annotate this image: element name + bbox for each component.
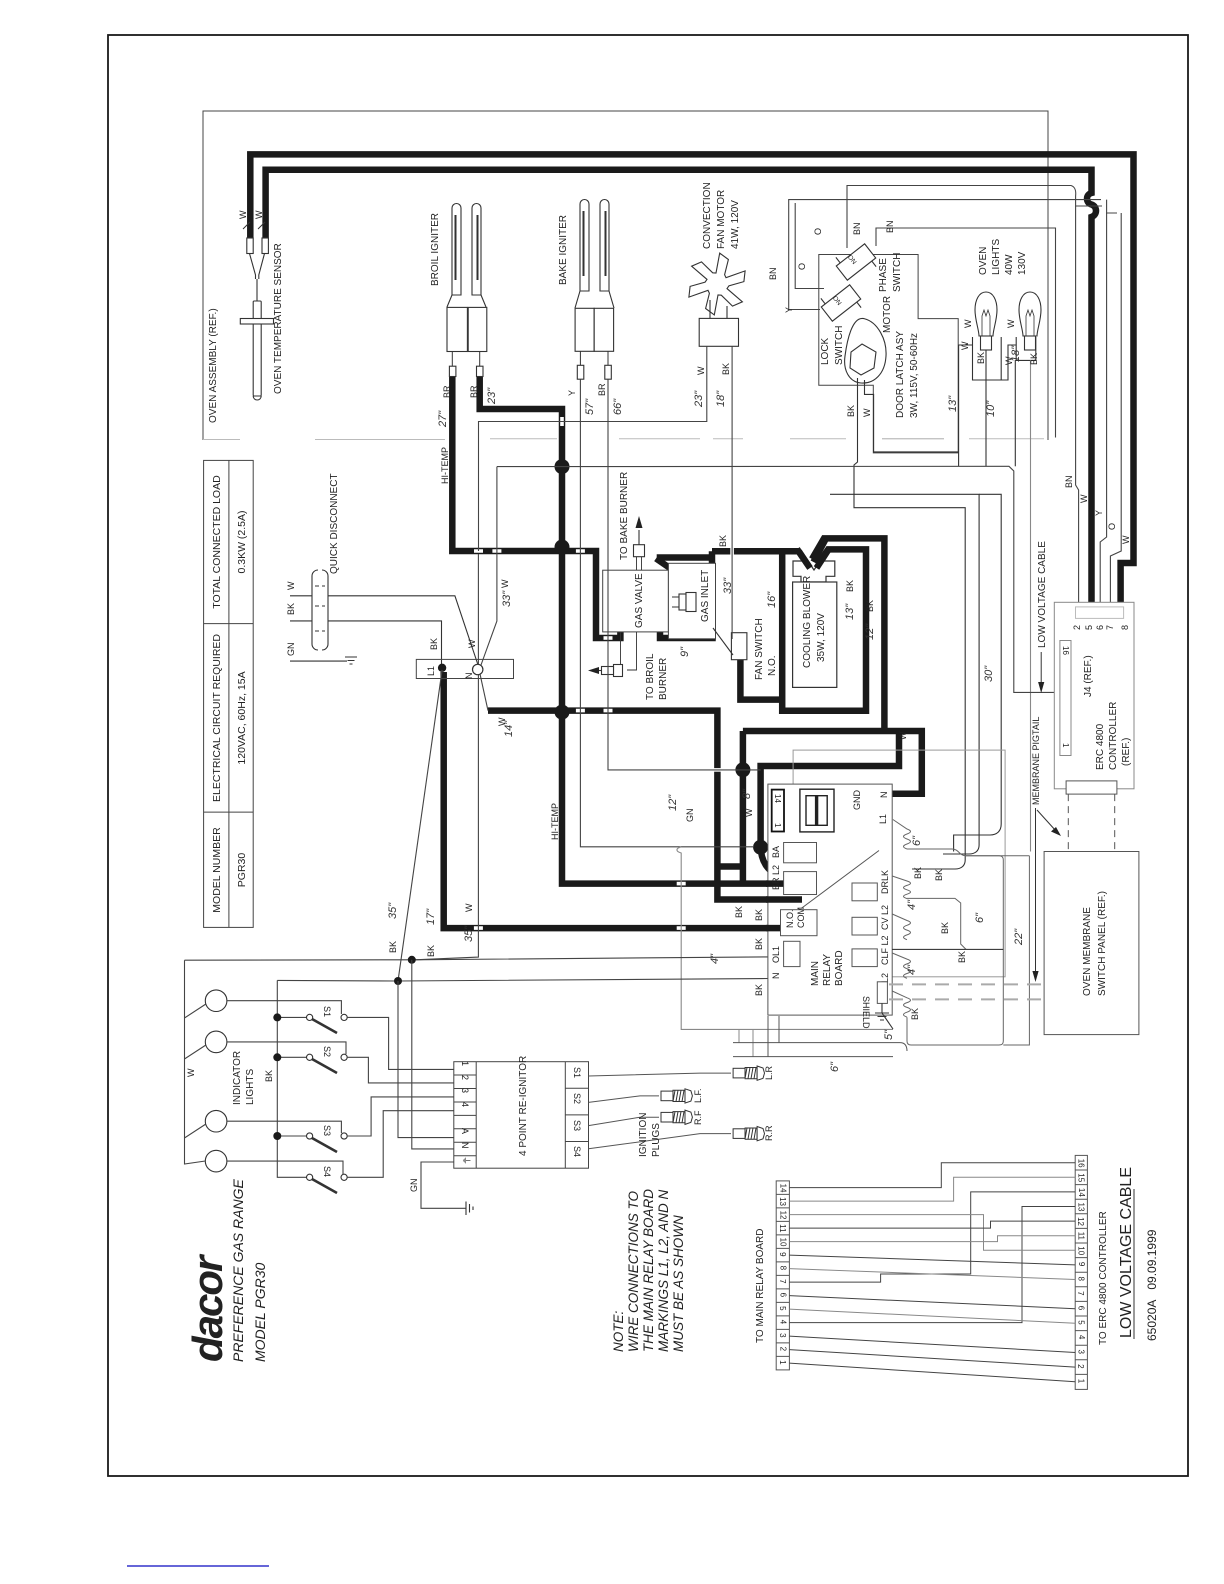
svg-text:130V: 130V <box>1017 251 1028 275</box>
door latch assembly box <box>819 255 958 453</box>
svg-text:BK: BK <box>286 603 296 615</box>
svg-text:4": 4" <box>906 899 918 910</box>
svg-text:MODEL NUMBER: MODEL NUMBER <box>211 827 223 913</box>
svg-text:FAN MOTOR: FAN MOTOR <box>716 190 727 249</box>
svg-text:Y: Y <box>784 307 794 313</box>
svg-text:BK: BK <box>1029 353 1039 365</box>
svg-text:W: W <box>898 731 908 740</box>
wire BR broil igniter right 23in down to BR L2 bus <box>480 374 772 884</box>
svg-text:W: W <box>862 408 872 417</box>
svg-text:GN: GN <box>685 809 695 823</box>
wire W sensor inner to ERC pin5 <box>266 170 1096 611</box>
wire W 14in from N to relay N.O. <box>488 711 786 900</box>
svg-text:DOOR LATCH ASY: DOOR LATCH ASY <box>895 331 906 418</box>
wire BK CLF black <box>892 948 1003 950</box>
switch S4 <box>307 1174 348 1193</box>
svg-text:5: 5 <box>778 1306 787 1311</box>
svg-text:12: 12 <box>779 1211 788 1220</box>
svg-text:COOLING BLOWER: COOLING BLOWER <box>802 576 813 668</box>
coil CLF L2 <box>892 953 910 978</box>
svg-text:3W, 115V, 50-60Hz: 3W, 115V, 50-60Hz <box>909 333 920 418</box>
svg-text:THE MAIN RELAY BOARD: THE MAIN RELAY BOARD <box>641 1189 656 1352</box>
switch output wires <box>347 960 454 1178</box>
wire lamp2 right <box>227 1042 346 1054</box>
svg-text:OVEN TEMPERATURE SENSOR: OVEN TEMPERATURE SENSOR <box>273 243 284 394</box>
svg-text:1: 1 <box>778 1360 787 1365</box>
relay connector strip 1-14 <box>772 790 784 832</box>
gas valve box <box>603 563 716 639</box>
relay board right coils and wires <box>892 820 1029 1046</box>
svg-text:N.O.: N.O. <box>767 655 778 676</box>
svg-text:10: 10 <box>1076 1246 1085 1255</box>
svg-text:W: W <box>286 581 296 590</box>
svg-text:BK: BK <box>910 1008 920 1020</box>
svg-text:CLF L2: CLF L2 <box>880 935 890 965</box>
oven assembly box bottom edge over latch box <box>882 438 944 440</box>
svg-text:BN: BN <box>1064 475 1074 488</box>
svg-text:BK: BK <box>934 869 944 881</box>
svg-text:15: 15 <box>1076 1173 1085 1182</box>
svg-text:BK: BK <box>388 941 398 953</box>
svg-text:SHIELD: SHIELD <box>861 996 871 1029</box>
svg-text:12: 12 <box>1076 1217 1085 1226</box>
relay terminals BA BR <box>784 843 817 863</box>
svg-text:S2: S2 <box>322 1046 332 1057</box>
svg-text:9: 9 <box>778 1252 787 1257</box>
lock switch cam <box>845 318 886 383</box>
coil DRLK <box>892 876 910 899</box>
svg-text:DRLK: DRLK <box>880 870 890 894</box>
4 point re-ignitor <box>454 1062 589 1169</box>
wire lamp3 right <box>227 1121 342 1133</box>
ignition plug L.F. <box>661 1089 692 1103</box>
top thin wires phase switch to right bus <box>789 186 1121 612</box>
wire W 14 diagonal from N <box>480 674 488 711</box>
svg-text:MAIN: MAIN <box>810 961 821 986</box>
svg-text:120VAC, 60Hz, 15A: 120VAC, 60Hz, 15A <box>236 671 248 764</box>
svg-text:18": 18" <box>1010 345 1022 362</box>
svg-text:BR: BR <box>442 385 452 398</box>
svg-text:GAS INLET: GAS INLET <box>700 570 711 622</box>
wire BK 6in L1 loop <box>907 849 1003 1045</box>
svg-text:BR: BR <box>469 385 479 398</box>
svg-text:S2: S2 <box>572 1093 582 1104</box>
svg-text:9: 9 <box>1077 1262 1086 1267</box>
right connector pin numbers <box>1076 1159 1086 1384</box>
svg-text:O: O <box>797 263 807 270</box>
svg-text:BK: BK <box>846 405 856 417</box>
svg-text:BK: BK <box>845 580 855 592</box>
svg-text:GND: GND <box>852 790 862 811</box>
svg-text:W: W <box>960 341 970 350</box>
wire BK lamp1 <box>985 350 987 466</box>
svg-text:LIGHTS: LIGHTS <box>991 239 1002 275</box>
ERC bottom connector <box>1066 781 1117 794</box>
svg-text:MUST BE AS SHOWN: MUST BE AS SHOWN <box>671 1215 686 1352</box>
wire phase B left <box>795 203 824 289</box>
svg-text:10": 10" <box>985 400 997 417</box>
svg-text:BAKE IGNITER: BAKE IGNITER <box>558 215 569 285</box>
svg-text:GAS VALVE: GAS VALVE <box>634 573 645 628</box>
svg-text:N: N <box>771 973 781 980</box>
wire N vertical through terminal <box>415 554 478 960</box>
svg-text:W: W <box>238 210 248 219</box>
svg-text:L1: L1 <box>878 814 888 824</box>
svg-text:1: 1 <box>773 823 782 828</box>
wire BK quick disconnect <box>290 621 442 666</box>
svg-text:12": 12" <box>667 794 679 811</box>
svg-text:35": 35" <box>387 902 399 919</box>
svg-text:3: 3 <box>460 1088 470 1093</box>
svg-text:S1: S1 <box>572 1067 582 1078</box>
svg-text:27": 27" <box>437 410 449 428</box>
svg-text:CONVECTION: CONVECTION <box>702 182 713 249</box>
left connector pin numbers <box>778 1184 788 1366</box>
NOTE text <box>611 1189 686 1352</box>
svg-text:35W, 120V: 35W, 120V <box>816 613 827 662</box>
wire GN ground <box>290 660 347 662</box>
svg-text:BR: BR <box>597 383 607 396</box>
wires door latch bottom BK W <box>830 378 1001 869</box>
svg-text:BK: BK <box>754 938 764 950</box>
wire gas valve diagonal stub <box>656 559 680 576</box>
wire GN 12in <box>677 847 893 1030</box>
svg-text:PHASE: PHASE <box>878 258 889 292</box>
svg-text:Y: Y <box>567 390 577 396</box>
svg-text:OL1: OL1 <box>771 946 781 963</box>
svg-text:W: W <box>1079 494 1089 503</box>
J4 connector <box>1076 607 1124 619</box>
wire BN vertical right <box>1076 206 1079 611</box>
svg-text:1: 1 <box>1061 743 1070 748</box>
svg-text:BN: BN <box>768 267 778 280</box>
wire N line y981 <box>277 979 768 982</box>
wire blower plug left diagonal <box>799 551 809 566</box>
svg-text:17": 17" <box>425 908 437 925</box>
wire Y vertical right <box>1100 213 1106 611</box>
bake igniter <box>575 200 614 380</box>
svg-text:FAN SWITCH: FAN SWITCH <box>754 618 765 680</box>
svg-text:TOTAL CONNECTED LOAD: TOTAL CONNECTED LOAD <box>211 475 223 609</box>
svg-text:23": 23" <box>693 390 705 408</box>
svg-text:R.R: R.R <box>764 1125 774 1141</box>
wire O vertical right <box>1110 225 1121 611</box>
wire bus y731 and N wire to relay board <box>743 731 922 794</box>
svg-text:6": 6" <box>911 835 923 846</box>
svg-text:BA: BA <box>771 846 781 858</box>
phase switch microswitch A <box>832 238 880 285</box>
svg-text:BK: BK <box>718 535 728 547</box>
svg-text:14: 14 <box>1077 1188 1086 1197</box>
svg-text:10: 10 <box>779 1238 788 1247</box>
wire W 8in staircase to BA <box>761 731 899 877</box>
svg-text:0.3KW (2.5A): 0.3KW (2.5A) <box>236 510 248 573</box>
svg-text:MEMBRANE PIGTAIL: MEMBRANE PIGTAIL <box>1031 717 1041 805</box>
svg-text:GN: GN <box>286 643 296 657</box>
svg-text:MARKINGS L1, L2, AND N: MARKINGS L1, L2, AND N <box>656 1189 671 1352</box>
svg-text:BK: BK <box>429 638 439 650</box>
wire BR broil igniter left HI-TEMP to gas valve <box>452 374 620 638</box>
to bake burner fitting <box>634 516 645 570</box>
svg-text:W: W <box>963 319 973 328</box>
svg-text:S1: S1 <box>322 1006 332 1017</box>
wire BK 6in right <box>1003 856 1029 1045</box>
svg-text:5: 5 <box>1084 625 1094 630</box>
svg-text:65020A 09.09.1999: 65020A 09.09.1999 <box>1145 1229 1159 1341</box>
svg-text:18": 18" <box>715 390 727 407</box>
wire BN right bus hop <box>1107 206 1122 225</box>
svg-text:A: A <box>460 1128 470 1134</box>
svg-text:40W: 40W <box>1004 254 1015 275</box>
ground symbol shield <box>875 1003 893 1029</box>
svg-text:MOTOR: MOTOR <box>882 296 893 333</box>
svg-text:BROIL IGNITER: BROIL IGNITER <box>430 213 441 286</box>
bulb 1 <box>975 292 997 350</box>
svg-text:BK: BK <box>940 922 950 934</box>
broil igniter <box>447 204 487 377</box>
low voltage cable right connector TO ERC 4800 CONTROLLER <box>1075 1155 1087 1389</box>
svg-text:W: W <box>696 366 706 375</box>
svg-text:GN: GN <box>409 1179 419 1193</box>
svg-text:16: 16 <box>1061 646 1070 655</box>
svg-text:6: 6 <box>1095 625 1105 630</box>
white hop gaps where thin wires cross thick wires <box>474 417 732 928</box>
svg-text:W: W <box>1121 535 1131 544</box>
cooling blower <box>793 561 837 687</box>
svg-text:W: W <box>254 210 264 219</box>
svg-text:BK: BK <box>957 951 967 963</box>
svg-text:W: W <box>500 579 510 588</box>
svg-text:11: 11 <box>778 1224 787 1233</box>
svg-text:BN: BN <box>852 222 862 235</box>
svg-text:LOCK: LOCK <box>820 337 831 365</box>
svg-text:13": 13" <box>844 603 856 620</box>
svg-text:BK: BK <box>734 906 744 918</box>
svg-text:L.F.: L.F. <box>693 1088 703 1103</box>
svg-text:BOARD: BOARD <box>834 950 845 986</box>
svg-text:LOW VOLTAGE CABLE: LOW VOLTAGE CABLE <box>1118 1167 1135 1338</box>
svg-text:COM: COM <box>796 907 806 928</box>
svg-text:O: O <box>1107 523 1117 530</box>
svg-text:IGNITION: IGNITION <box>638 1113 649 1157</box>
svg-text:SWITCH: SWITCH <box>834 326 845 365</box>
svg-text:BK: BK <box>865 600 875 612</box>
bulb 2 <box>1019 292 1041 350</box>
svg-text:TO BAKE BURNER: TO BAKE BURNER <box>619 472 630 560</box>
svg-text:BK: BK <box>721 363 731 375</box>
svg-text:TO BROIL: TO BROIL <box>645 653 656 700</box>
wire blower inner loop <box>782 549 866 710</box>
cable wires <box>789 1163 1075 1382</box>
svg-text:HI-TEMP: HI-TEMP <box>440 447 450 484</box>
svg-text:9": 9" <box>679 646 691 657</box>
relay OL1 <box>784 941 800 966</box>
wire GN reignitor ground <box>421 1162 466 1208</box>
svg-text:PREFERENCE GAS RANGE: PREFERENCE GAS RANGE <box>230 1179 246 1362</box>
coil L1 6in <box>893 820 911 850</box>
svg-text:4": 4" <box>906 964 918 975</box>
svg-text:L1: L1 <box>426 666 436 676</box>
oven membrane switch panel <box>1044 852 1139 1035</box>
wire W sensor outer to ERC pin8 <box>250 154 1133 611</box>
svg-text:SWITCH: SWITCH <box>892 253 903 292</box>
svg-text:(REF.): (REF.) <box>1121 738 1132 766</box>
svg-text:OVEN ASSEMBLY (REF.): OVEN ASSEMBLY (REF.) <box>208 308 219 423</box>
oven assembly box <box>203 111 1048 440</box>
svg-text:BK: BK <box>754 984 764 996</box>
svg-text:W: W <box>464 903 474 912</box>
wire W quick disconnect <box>290 596 478 664</box>
phase switch microswitch B <box>817 279 865 326</box>
svg-text:Y: Y <box>1094 510 1104 516</box>
wire W lamp2 vert <box>1014 360 1016 466</box>
svg-text:N.O.: N.O. <box>785 909 795 928</box>
svg-text:8: 8 <box>779 1266 788 1271</box>
svg-text:L.R: L.R <box>764 1065 774 1080</box>
svg-text:7: 7 <box>1105 625 1115 630</box>
svg-text:S3: S3 <box>322 1125 332 1136</box>
to broil burner fitting <box>588 632 637 677</box>
wire blower outer loop <box>812 538 884 731</box>
svg-text:S4: S4 <box>322 1166 332 1177</box>
ignition plug wires <box>589 1073 732 1149</box>
convection fan motor impeller <box>689 253 745 346</box>
svg-text:TO MAIN RELAY BOARD: TO MAIN RELAY BOARD <box>755 1229 766 1343</box>
svg-text:13: 13 <box>1077 1203 1086 1212</box>
switch S3 <box>307 1133 348 1152</box>
svg-text:N: N <box>879 792 889 799</box>
svg-text:BN: BN <box>885 220 895 233</box>
svg-text:SWITCH PANEL (REF.): SWITCH PANEL (REF.) <box>1097 891 1108 996</box>
svg-text:S4: S4 <box>572 1146 582 1157</box>
membrane pigtail dashed <box>889 984 1044 999</box>
svg-text:NOTE:: NOTE: <box>611 1310 626 1352</box>
relay bottom BK wires to 6in bus <box>733 1016 907 1057</box>
svg-text:dacor: dacor <box>184 1253 231 1362</box>
svg-text:41W, 120V: 41W, 120V <box>730 200 741 249</box>
svg-text:6: 6 <box>779 1293 788 1298</box>
BK bus junction dots <box>273 956 416 1140</box>
svg-text:1: 1 <box>460 1061 470 1066</box>
svg-text:W: W <box>744 808 754 817</box>
svg-text:14: 14 <box>779 1184 788 1193</box>
svg-text:4: 4 <box>460 1102 470 1107</box>
coil L2 4in <box>892 991 910 1017</box>
svg-text:13: 13 <box>778 1197 787 1206</box>
svg-text:BK: BK <box>426 945 436 957</box>
wire BK lamp2 <box>1030 360 1032 851</box>
light fixture boxes and wires <box>959 337 1036 852</box>
wire BN phase to x1055 <box>876 228 1056 438</box>
svg-text:66": 66" <box>612 398 624 415</box>
svg-text:3: 3 <box>1077 1350 1086 1355</box>
svg-text:3: 3 <box>778 1333 787 1338</box>
svg-text:RELAY: RELAY <box>822 954 833 986</box>
svg-text:1: 1 <box>1077 1379 1086 1384</box>
relay GND pad <box>800 789 834 832</box>
svg-text:2: 2 <box>1072 625 1082 630</box>
svg-text:MODEL PGR30: MODEL PGR30 <box>252 1262 268 1362</box>
J1 strip 16 <box>1060 641 1071 756</box>
svg-text:BR L2: BR L2 <box>771 865 781 890</box>
svg-text:BK: BK <box>976 352 986 364</box>
ground symbol quick disconnect <box>345 657 357 664</box>
svg-text:6": 6" <box>974 912 986 923</box>
svg-text:ELECTRICAL CIRCUIT REQUIRED: ELECTRICAL CIRCUIT REQUIRED <box>211 634 223 802</box>
svg-text:N: N <box>464 673 474 680</box>
svg-text:30": 30" <box>983 665 995 682</box>
svg-text:OVEN MEMBRANE: OVEN MEMBRANE <box>1082 907 1093 996</box>
svg-text:BK: BK <box>913 867 923 879</box>
svg-text:14: 14 <box>773 794 782 803</box>
svg-text:6: 6 <box>1077 1306 1086 1311</box>
wire gas valve right loop <box>660 629 713 638</box>
terminal strip L1 N <box>416 659 513 678</box>
svg-text:PGR30: PGR30 <box>236 853 248 888</box>
wire W lamp2 <box>1001 345 1016 380</box>
svg-text:23": 23" <box>486 387 498 405</box>
junction dots <box>555 459 769 855</box>
oven temperature sensor <box>240 238 273 400</box>
wire BK 35 diagonal from L1 <box>398 670 442 981</box>
svg-text:LOW VOLTAGE CABLE: LOW VOLTAGE CABLE <box>1037 541 1048 648</box>
svg-text:BK: BK <box>264 1070 274 1082</box>
low voltage cable left connector TO MAIN RELAY BOARD <box>776 1181 789 1370</box>
gas inlet fitting <box>672 593 696 612</box>
wire fan motor W down and left <box>479 346 707 551</box>
wire O phase sw up/right <box>847 186 1102 249</box>
svg-text:WIRE CONNECTIONS TO: WIRE CONNECTIONS TO <box>626 1190 641 1352</box>
wire L1 17in to relay COM <box>444 672 782 928</box>
svg-text:33": 33" <box>501 590 513 607</box>
fan switch <box>713 628 747 660</box>
main relay board <box>768 750 1005 1015</box>
svg-text:22": 22" <box>1013 928 1025 946</box>
svg-text:16": 16" <box>766 591 778 608</box>
wire vertical to BR L2 bus <box>717 731 746 884</box>
wire W 33in <box>481 467 497 665</box>
svg-text:7: 7 <box>1076 1291 1085 1296</box>
wire blower plug stubs <box>797 539 830 568</box>
svg-text:LIGHTS: LIGHTS <box>245 1069 256 1105</box>
label W ticks on sensor wires <box>243 222 265 229</box>
svg-text:CV L2: CV L2 <box>880 905 890 930</box>
switch S2 <box>307 1054 348 1073</box>
svg-text:OVEN: OVEN <box>978 247 989 275</box>
svg-text:4: 4 <box>1077 1335 1086 1340</box>
relay right terminals <box>852 883 877 901</box>
wire lamp4 right <box>227 1161 343 1174</box>
wire BK bus <box>277 980 307 1177</box>
blue underline mark <box>127 1565 269 1567</box>
svg-text:N: N <box>460 1142 470 1149</box>
dashed link to membrane <box>1068 794 1114 851</box>
table <box>204 460 254 927</box>
svg-text:5: 5 <box>1076 1320 1085 1325</box>
wire OL1 line y960 <box>185 957 768 960</box>
svg-text:W: W <box>467 639 477 648</box>
thick stubs into board <box>766 884 802 929</box>
svg-text:R.F: R.F <box>693 1110 703 1125</box>
svg-text:2: 2 <box>779 1347 788 1352</box>
svg-text:BK: BK <box>754 909 764 921</box>
wire W lamp1 <box>959 345 973 466</box>
wire lamp1 right <box>227 1001 342 1014</box>
svg-text:S3: S3 <box>572 1120 582 1131</box>
wire W N bus <box>412 960 454 1149</box>
coil CV L2 4in <box>892 914 910 940</box>
wire fan switch feeds <box>657 551 799 699</box>
